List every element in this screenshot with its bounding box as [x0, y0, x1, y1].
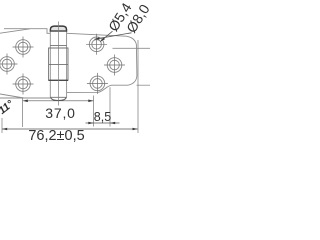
left leaf top slant edge [0, 29, 30, 33]
dim line 76,2 [2, 128, 138, 130]
hole L3 crosshair [13, 74, 34, 95]
hole R2 inner [110, 60, 120, 70]
hole L3 inner [18, 79, 28, 89]
barrel left vertical [49, 31, 51, 98]
dim line 8,5 [86, 122, 120, 124]
knuckle mid line [49, 64, 68, 66]
hole L1 inner [18, 42, 28, 52]
ext line at bend vertex [22, 98, 24, 128]
hole L2 inner [2, 59, 12, 69]
ext line left 76,2 [1, 118, 3, 133]
knuckle line dark bottom of box [49, 79, 68, 81]
leader to inner hole dia 5,4 [100, 31, 112, 41]
hole R1 outer [89, 37, 104, 52]
hole L1 outer [16, 40, 31, 55]
knuckle line 1 [50, 45, 66, 47]
hole L3 outer [16, 77, 31, 92]
mystery ext line top right [113, 47, 151, 49]
left leaf top edge [4, 29, 50, 34]
left leaf bottom slant edge (11 deg) [0, 94, 24, 98]
ext line 8,5 left [93, 96, 95, 127]
ext line bottom right continuation [137, 84, 151, 86]
hole L2 crosshair [0, 54, 18, 75]
right leaf outline [67, 33, 137, 92]
hole R3 outer [90, 76, 105, 91]
leader to outer hole dia 8,0 [95, 33, 132, 39]
hole R3 inner [93, 79, 103, 89]
barrel bottom dome [51, 97, 67, 100]
barrel top dome (pin head) [50, 26, 66, 31]
hole L2 outer [0, 57, 14, 72]
hole L1 crosshair [13, 37, 34, 58]
middle knuckle box [49, 48, 68, 80]
svg-text:37,0: 37,0 [45, 105, 75, 121]
hole R2 outer [107, 58, 122, 73]
hole R1 crosshair [86, 34, 107, 55]
ext line 8,5 right [109, 87, 111, 126]
barrel right vertical [66, 31, 68, 98]
ext line right edge 76,2 [137, 40, 139, 133]
svg-text:76,2±0,5: 76,2±0,5 [28, 128, 84, 144]
left leaf bottom reference line [0, 97, 50, 99]
pin centerline [57, 22, 59, 106]
dim line 37,0 [23, 100, 94, 102]
hole R1 inner [92, 40, 102, 50]
barrel line under dome [50, 30, 66, 32]
svg-text:8,5: 8,5 [94, 110, 111, 124]
hole R2 crosshair [104, 55, 125, 76]
hole R3 crosshair [87, 73, 108, 94]
barrel bottom line [50, 96, 66, 98]
